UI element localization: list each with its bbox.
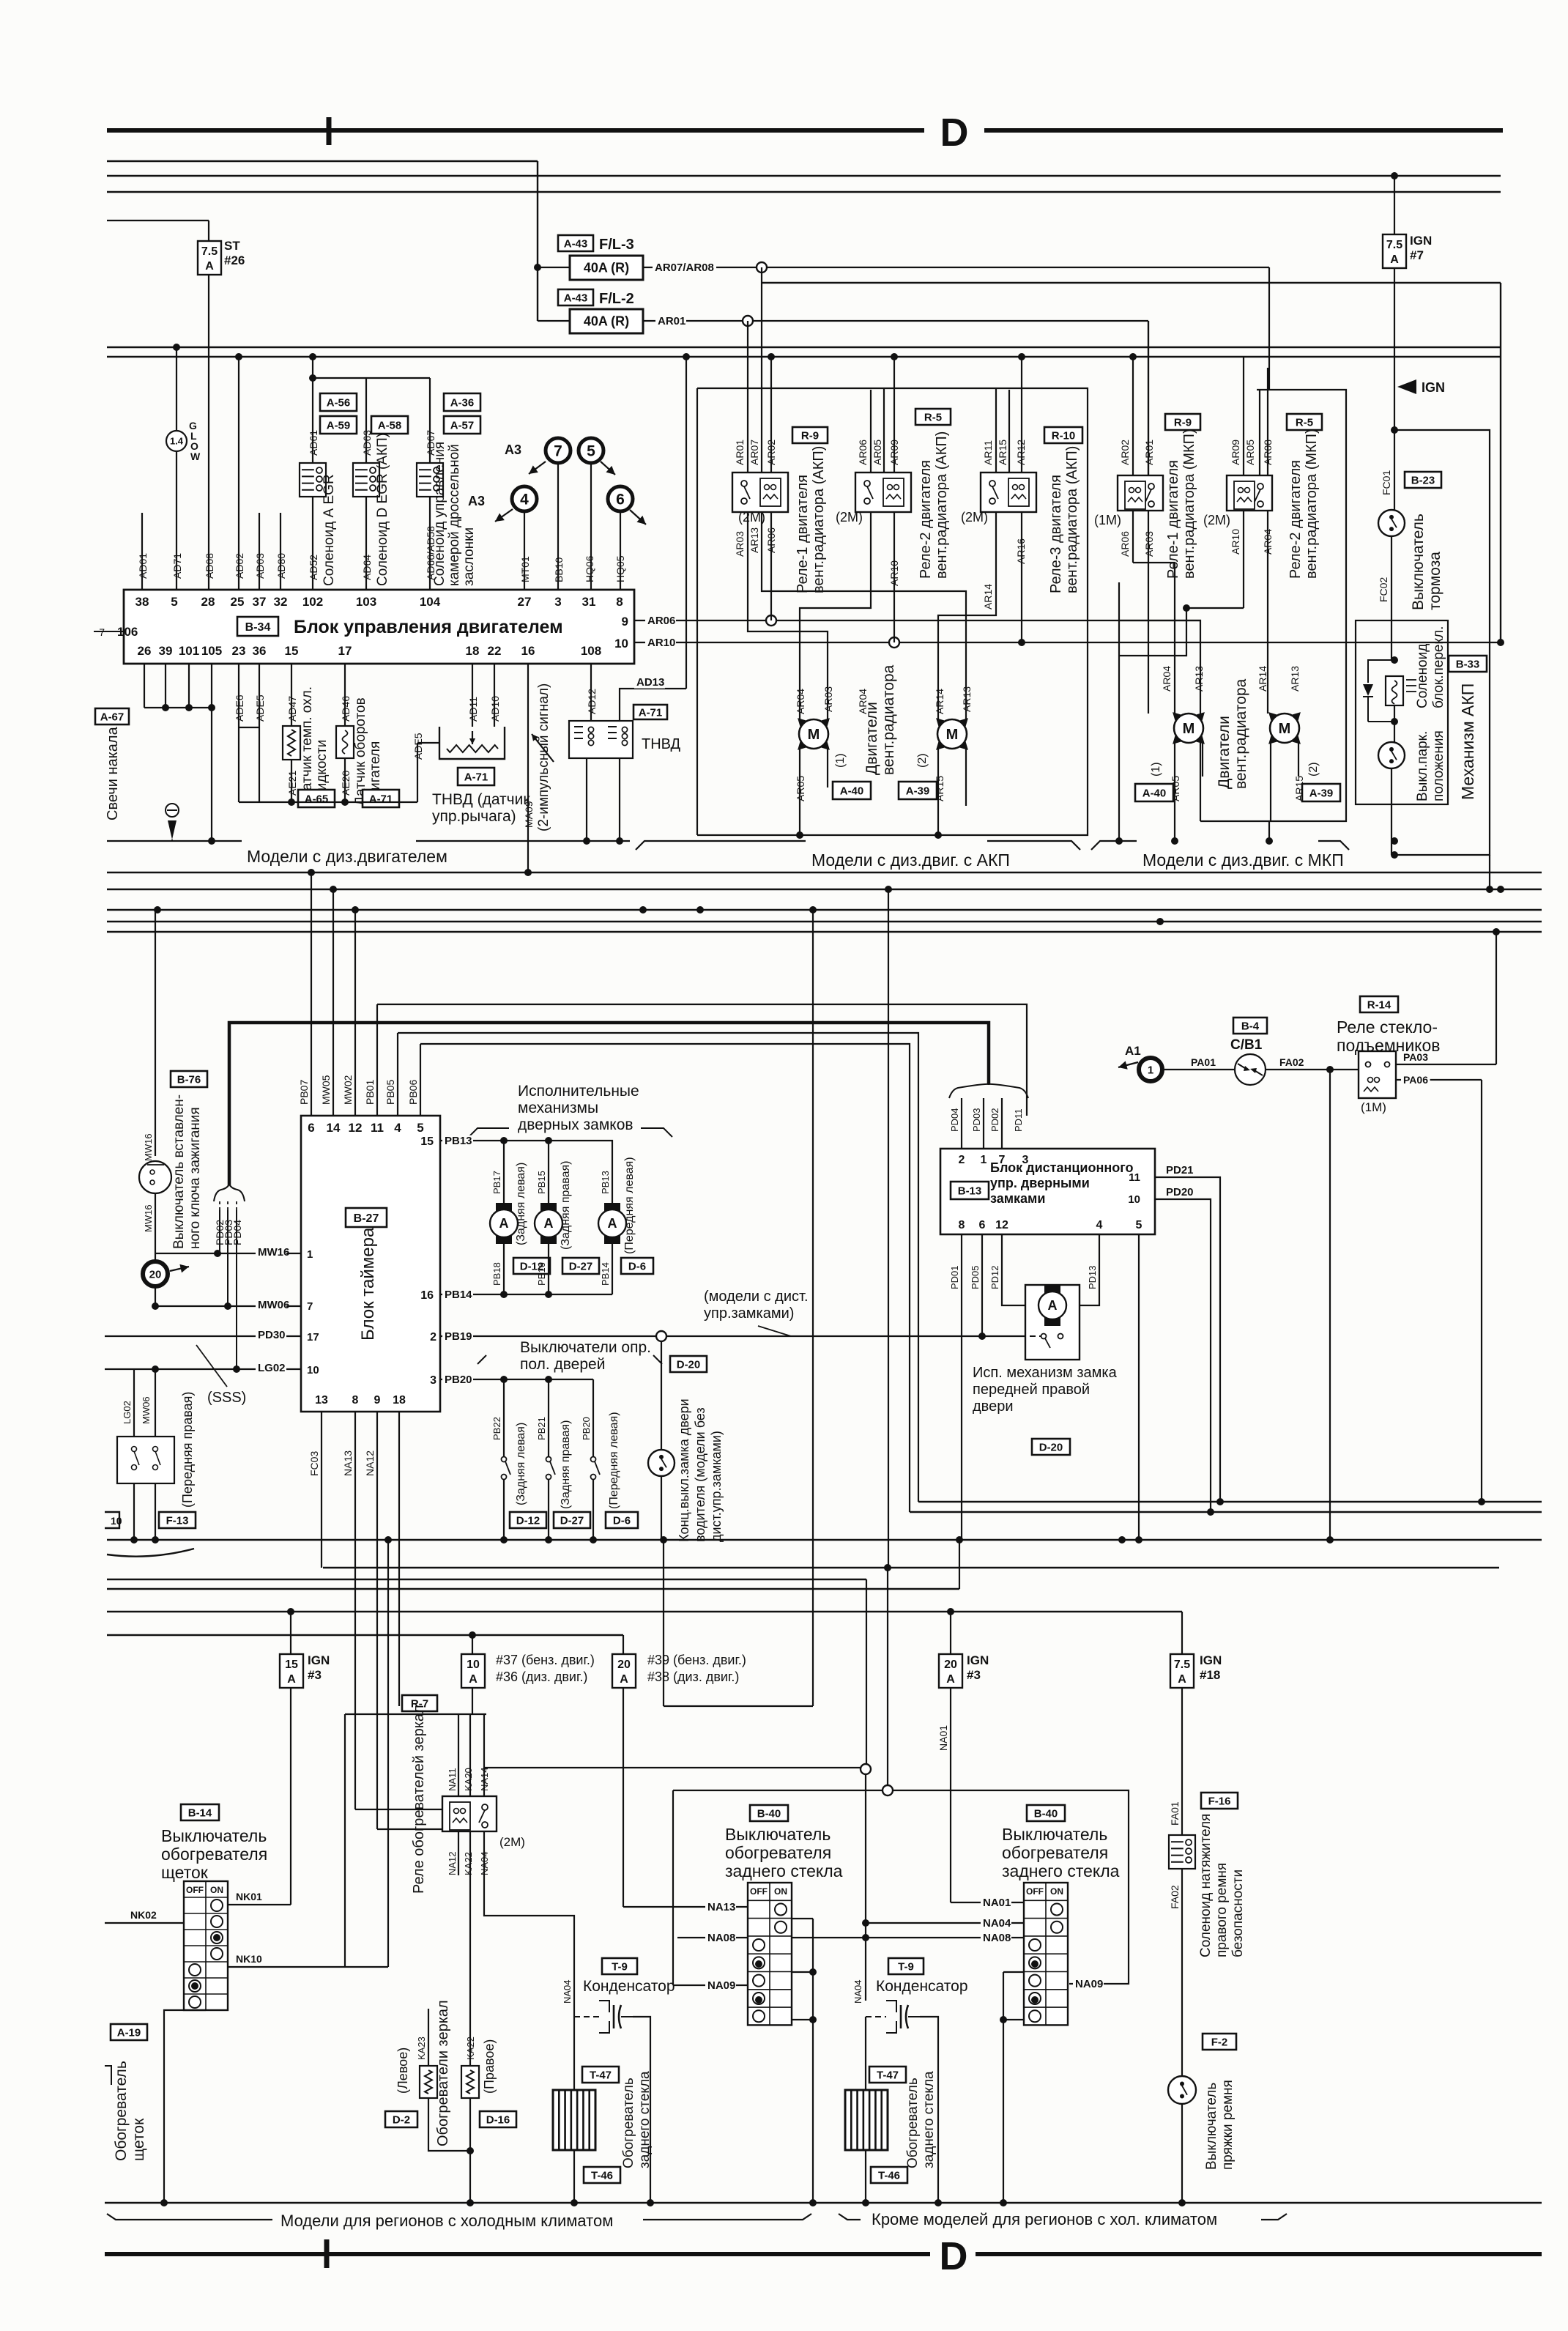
svg-text:Обогреватель: Обогреватель [113,2061,130,2161]
svg-text:MW16: MW16 [258,1246,289,1259]
svg-text:IGN: IGN [1200,1653,1222,1667]
wire FA02 [1266,1069,1359,1070]
svg-text:#26: #26 [224,253,245,267]
svg-text:PB13: PB13 [445,1135,472,1147]
wire MA09 2-pulse [527,664,529,872]
connector A-57 [444,416,480,434]
svg-text:PD21: PD21 [1166,1164,1194,1176]
svg-text:7.5: 7.5 [1174,1659,1190,1671]
svg-text:(2M): (2M) [961,510,988,525]
svg-text:AR11: AR11 [982,440,994,465]
svg-text:PB07: PB07 [298,1080,310,1105]
svg-text:AD64: AD64 [361,555,373,580]
connector T-47 middle [869,2067,906,2083]
svg-text:D-27: D-27 [569,1260,593,1272]
svg-text:108: 108 [581,644,601,658]
svg-text:Исп. механизм замка: Исп. механизм замка [973,1365,1118,1381]
junction AR01 [743,316,753,326]
solenoid drops to section line [586,758,587,841]
svg-text:OFF: OFF [750,1886,768,1897]
driver door lock switch [661,1341,662,1450]
svg-text:#39 (бенз. двиг.): #39 (бенз. двиг.) [647,1653,746,1667]
svg-text:A-71: A-71 [369,793,393,805]
svg-text:40A (R): 40A (R) [584,261,629,275]
svg-text:10: 10 [111,1515,122,1527]
svg-text:обогревателя: обогревателя [1002,1843,1108,1862]
svg-text:AD03: AD03 [254,553,266,579]
svg-text:ADE6: ADE6 [234,694,245,722]
svg-text:AD71: AD71 [171,553,183,579]
wire to fuse ST [107,220,209,221]
connector A-43 (F/L-2) [558,289,593,305]
wire MW16 to timer pin 1 [155,1253,301,1254]
svg-text:1: 1 [307,1248,313,1261]
svg-text:10: 10 [614,637,628,651]
svg-text:AD02: AD02 [234,553,245,579]
svg-text:D: D [940,111,969,155]
svg-text:A1: A1 [1125,1044,1141,1058]
svg-text:3: 3 [1022,1154,1029,1166]
svg-text:AR09: AR09 [1230,440,1241,465]
wire PD01 [961,1234,962,1540]
svg-text:A-39: A-39 [906,785,930,797]
svg-text:31: 31 [582,595,596,609]
AKP mechanism box [1356,620,1448,804]
connector R-9 MKP [1165,414,1200,430]
svg-text:FC02: FC02 [1378,577,1389,602]
svg-text:12: 12 [995,1219,1008,1231]
svg-text:D-20: D-20 [677,1358,701,1371]
svg-text:PB14: PB14 [445,1289,472,1301]
svg-text:PD05: PD05 [970,1265,981,1289]
wire NK10 [228,1966,388,1968]
wire PD05 [981,1234,983,1336]
svg-text:M: M [1183,721,1195,737]
svg-text:16: 16 [420,1289,434,1302]
svg-text:NA04: NA04 [983,1917,1011,1930]
bracket cold climate [107,2214,272,2220]
svg-text:(1M): (1M) [1361,1100,1386,1114]
svg-text:PB18: PB18 [491,1262,502,1286]
svg-text:Выключатель: Выключатель [1410,514,1427,610]
open circle NA04 [484,1767,861,1768]
relay-3 out wires [938,512,996,719]
svg-text:A: A [499,1216,509,1231]
svg-text:Конденсатор: Конденсатор [876,1978,968,1995]
svg-text:NA12: NA12 [364,1450,376,1476]
svg-text:замками: замками [990,1191,1045,1206]
connector T-9 left [602,1958,637,1974]
svg-text:PA03: PA03 [1403,1051,1428,1063]
solenoid A EGR [300,463,326,497]
wire AD61 chain [312,357,313,463]
door switch rear left [503,1379,505,1457]
connector B-23 [1405,472,1441,488]
svg-text:NA04: NA04 [479,1851,490,1875]
svg-text:OFF: OFF [186,1885,204,1895]
svg-text:Реле-1 двигателя: Реле-1 двигателя [795,475,811,593]
door switch front left [592,1379,594,1457]
left mirror heater [428,1875,429,2066]
bus line 6 [107,356,1501,357]
svg-text:KA23: KA23 [416,2037,427,2060]
svg-text:Реле-1 двигателя: Реле-1 двигателя [1165,460,1181,579]
relay-2 MKP out [1243,511,1244,608]
svg-text:4: 4 [520,491,529,508]
wire to models-bracket [211,708,212,841]
NK10 riser [387,1540,389,1967]
wire MW16 below switch [155,1193,156,1261]
svg-text:A-40: A-40 [840,785,864,797]
svg-text:R-10: R-10 [1052,429,1076,442]
svg-text:Обогреватель: Обогреватель [905,2078,921,2168]
wire FA02 below solenoid [1181,1869,1183,2076]
open circle NA09 line [673,1790,883,1791]
svg-text:14: 14 [327,1121,341,1135]
svg-text:9: 9 [622,615,628,629]
nodes on middle buses [308,869,315,876]
svg-text:AR06: AR06 [857,440,869,465]
AKP section bottom drops [796,831,803,839]
svg-text:PA06: PA06 [1403,1074,1428,1086]
svg-text:8: 8 [959,1219,965,1231]
wire to F/L fuses [537,161,538,321]
MKP bottom dots [1115,837,1123,845]
svg-text:MW06: MW06 [141,1396,152,1424]
svg-text:PB13: PB13 [600,1171,611,1194]
svg-text:R-14: R-14 [1367,998,1391,1011]
svg-text:NA01: NA01 [983,1897,1011,1909]
svg-text:Модели с диз.двиг. с МКП: Модели с диз.двиг. с МКП [1142,850,1344,870]
park position switch [1378,742,1405,768]
TNVD pump solenoids [590,664,592,721]
wire NA04 vertical [865,1774,866,2001]
fuse 7.5A IGN #18 [1181,1612,1183,1654]
svg-text:MA09: MA09 [523,801,535,828]
wires ADE6 ADE5 [238,664,239,727]
svg-text:Выключатель: Выключатель [1204,2083,1219,2170]
svg-text:T-47: T-47 [877,2069,899,2081]
connector T-9 middle [888,1958,924,1974]
svg-text:AD52: AD52 [308,555,319,580]
svg-text:AE20: AE20 [340,771,352,796]
svg-text:R-9: R-9 [1174,416,1192,429]
svg-text:AR01: AR01 [658,315,685,327]
svg-text:R-5: R-5 [1296,416,1313,429]
solenoid throttle chamber [417,463,443,497]
svg-text:Блок таймера: Блок таймера [358,1227,378,1341]
svg-text:AD61: AD61 [308,430,319,456]
svg-text:AR05: AR05 [795,776,806,801]
svg-text:PB15: PB15 [536,1171,547,1194]
svg-text:T-9: T-9 [612,1960,628,1973]
svg-text:PB17: PB17 [491,1171,502,1194]
svg-text:11: 11 [371,1121,384,1135]
svg-text:(модели с дист.: (модели с дист. [704,1289,809,1305]
svg-text:D: D [940,2234,968,2278]
wire ADE5 to TNVD [417,743,418,802]
connector A-36 [444,393,480,411]
svg-text:B-40: B-40 [757,1807,781,1820]
svg-text:PD13: PD13 [1087,1265,1098,1289]
svg-text:AR07/AR08: AR07/AR08 [655,262,714,274]
svg-text:#3: #3 [308,1668,322,1682]
svg-text:Выключатели опр.: Выключатели опр. [520,1339,651,1356]
svg-text:FC01: FC01 [1381,470,1392,495]
svg-text:W: W [190,451,201,462]
svg-text:R-5: R-5 [924,411,942,423]
svg-text:17: 17 [338,644,352,658]
svg-text:AR03: AR03 [822,686,834,712]
lower bus line 6 segment [107,1579,866,1580]
connector A-58 [371,416,408,434]
wire PB14 from timer pin 16 [440,1294,593,1295]
connector T-47 left [582,2067,619,2083]
svg-text:PB06: PB06 [407,1080,419,1105]
relay-2 fan motor (AKP) [855,472,911,512]
svg-text:дверных замков: дверных замков [518,1116,633,1133]
wire to park switch [1394,705,1395,742]
relay-2 fan motor (MKP) [1227,475,1272,511]
svg-text:F-2: F-2 [1211,2036,1228,2048]
svg-text:(1): (1) [834,753,847,768]
svg-text:NA01: NA01 [937,1725,949,1751]
wire FC02 [1391,536,1392,660]
svg-text:обогревателя: обогревателя [161,1845,267,1864]
svg-text:щеток: щеток [130,2118,147,2161]
svg-text:A-39: A-39 [1309,787,1334,799]
lower bus line 2 [910,1511,1542,1513]
svg-text:Реле-3 двигателя: Реле-3 двигателя [1048,475,1064,593]
wiper switch bottom wire [164,2010,206,2203]
svg-text:#36 (диз. двиг.): #36 (диз. двиг.) [496,1669,587,1684]
svg-text:AR01: AR01 [734,440,746,465]
circuit breaker C/B1 [1233,1018,1267,1034]
svg-text:9: 9 [374,1394,381,1407]
relay-3 AKP wires [995,388,997,472]
fuse 7.5A IGN #7 [1394,176,1395,235]
svg-text:A: A [1178,1673,1186,1686]
svg-text:AR16: AR16 [1015,538,1027,564]
svg-text:3: 3 [554,595,561,609]
wire AD80 stub [280,513,281,590]
middle bus line 1 [107,872,1542,873]
svg-text:Двигатели: Двигатели [1216,716,1233,789]
svg-text:6: 6 [979,1219,986,1231]
svg-text:B-40: B-40 [1034,1807,1058,1820]
actuator rear right [548,1141,549,1203]
connector B-33 [1449,656,1487,672]
svg-text:AR06: AR06 [765,527,777,553]
connector D-20 driver [670,1356,707,1372]
svg-text:15: 15 [420,1135,434,1148]
node FA02 on bus [1326,1536,1334,1543]
svg-text:FA02: FA02 [1279,1056,1304,1068]
svg-text:Блок дистанционного: Блок дистанционного [990,1160,1133,1175]
svg-text:AD46: AD46 [340,696,352,722]
svg-text:A-71: A-71 [464,771,488,783]
wire KA22 label segment [428,2008,429,2009]
svg-text:AR05: AR05 [1244,440,1256,465]
svg-text:AR10: AR10 [888,560,900,586]
svg-text:OFF: OFF [1026,1886,1044,1897]
svg-text:водителя (модели без: водителя (модели без [693,1407,707,1542]
svg-text:10: 10 [467,1659,480,1671]
svg-text:ADE5: ADE5 [254,694,266,722]
svg-text:ST: ST [224,239,240,253]
wire AR01 right drop [1148,321,1149,475]
svg-text:20: 20 [944,1659,957,1671]
svg-text:T-46: T-46 [878,2169,900,2182]
svg-text:A-40: A-40 [1142,787,1167,799]
wire AD64 to pin 103 [365,497,367,590]
svg-text:A: A [608,1216,617,1231]
svg-text:104: 104 [420,595,441,609]
connector A-67 [95,708,129,724]
wire AD02 to ECU pin 25 [238,357,239,590]
svg-text:NA08: NA08 [707,1932,735,1944]
svg-text:27: 27 [518,595,532,609]
svg-text:5: 5 [171,595,177,609]
svg-text:Выключатель: Выключатель [1002,1825,1107,1844]
svg-text:25: 25 [231,595,245,609]
bracket AKP models [636,841,806,850]
fuse 7.5A ST #26 [198,241,221,275]
heater grid middle [865,2017,866,2090]
svg-text:2: 2 [959,1154,965,1166]
svg-text:1.4: 1.4 [170,436,184,447]
svg-text:R-9: R-9 [801,429,819,442]
svg-text:пол. дверей: пол. дверей [520,1356,605,1373]
svg-text:упр. дверными: упр. дверными [990,1176,1090,1190]
svg-text:A-19: A-19 [117,2026,141,2039]
svg-text:NA14: NA14 [479,1767,490,1791]
svg-text:(1): (1) [1150,762,1162,777]
connector D-12 switch [510,1512,546,1528]
svg-text:Датчик темп. охл.: Датчик темп. охл. [300,686,315,800]
wire NK01 [228,1904,291,1905]
svg-text:заднего стекла: заднего стекла [725,1861,843,1880]
lower bus line 1 [918,1501,1542,1502]
brake switch [1378,510,1405,536]
svg-text:NK01: NK01 [236,1891,262,1902]
svg-text:4: 4 [394,1121,401,1135]
relay-2 AKP wires [870,390,872,472]
AKP section frame [697,388,1088,835]
svg-text:A: A [620,1673,628,1686]
wire PB20 from timer pin 3 [440,1379,593,1380]
svg-text:PB19: PB19 [445,1330,472,1343]
relay-1 fan motor (AKP) [732,472,788,512]
svg-text:двери: двери [973,1398,1014,1415]
nodes on bus 6 right [683,353,690,360]
svg-text:NA09: NA09 [1075,1978,1103,1990]
svg-text:AR07: AR07 [748,440,760,465]
svg-text:18: 18 [466,644,480,658]
wire PA06 [1396,1079,1482,1081]
svg-text:AR10: AR10 [1230,529,1241,555]
svg-text:13: 13 [315,1394,328,1407]
svg-text:D-20: D-20 [1039,1441,1063,1453]
bus stub line 7 [762,282,1501,283]
bundle brace right [949,1084,1028,1098]
svg-text:Исполнительные: Исполнительные [518,1083,639,1100]
svg-text:AR13: AR13 [961,686,973,712]
svg-text:10: 10 [1128,1193,1140,1206]
wire PB19 from timer pin 2 [440,1335,1044,1337]
svg-text:AD12: AD12 [586,689,598,714]
timer block Блок таймера [301,1116,440,1412]
timer supply wires [311,872,312,1116]
svg-text:(Задняя левая): (Задняя левая) [515,1423,527,1505]
relay-2 MKP wires [1243,357,1244,475]
svg-text:A-71: A-71 [639,706,663,719]
svg-text:AD66/AD58: AD66/AD58 [425,526,436,580]
svg-text:вент.радиатора (МКП): вент.радиатора (МКП) [1304,429,1320,579]
svg-text:B-34: B-34 [245,621,271,634]
svg-text:PD04: PD04 [949,1108,960,1132]
svg-text:7.5: 7.5 [1386,239,1402,251]
node on bus 3 [1391,172,1398,179]
connector B-76 [171,1071,207,1087]
svg-text:ON: ON [210,1885,223,1895]
rear heater switch 1 grid [748,1883,792,2025]
svg-text:A: A [544,1216,554,1231]
wire AD01 stub [141,513,143,590]
svg-text:Реле-2 двигателя: Реле-2 двигателя [1288,460,1304,579]
node AD71 [173,344,180,351]
svg-text:A-43: A-43 [564,292,588,304]
svg-text:#37 (бенз. двиг.): #37 (бенз. двиг.) [496,1653,595,1667]
connector D-12 [513,1258,550,1274]
wire PB19 dash to actuator [982,1335,1041,1337]
connector R-10 [1044,427,1082,443]
fuse 10A #37/#36 [472,1635,473,1654]
NA04 line to switch 2 [866,1922,1024,1924]
section line diesel models [107,840,242,842]
svg-text:AD08: AD08 [204,553,215,579]
svg-text:(2): (2) [1307,762,1320,777]
svg-text:20: 20 [617,1659,631,1671]
capacitor left [599,2001,609,2033]
lower bus line 3 [107,1539,1542,1541]
connector A-39 [899,782,937,799]
svg-text:#7: #7 [1410,248,1424,262]
svg-text:AR01: AR01 [1143,440,1155,465]
svg-text:M: M [946,727,959,743]
svg-text:Реле стекло-: Реле стекло- [1337,1018,1438,1037]
svg-text:Соленоид А EGR: Соленоид А EGR [322,474,337,586]
fusible link F/L-2 40A [538,320,570,322]
wire NA01 into switch2 [951,1902,1024,1903]
svg-text:A: A [1390,253,1399,266]
connector R-5 [915,409,951,425]
connector F-2 [1203,2034,1236,2050]
svg-text:AD80: AD80 [275,553,287,579]
capacitor middle [886,2001,896,2033]
wire PB13 from timer pin 15 [440,1140,593,1141]
svg-text:NA11: NA11 [447,1768,458,1791]
mirror left resistor [428,2009,429,2066]
bracket MKP models [1091,841,1137,850]
bus line 2 [107,160,538,162]
rear heater switch 2 grid [1024,1883,1068,2025]
svg-text:ТНВД: ТНВД [642,736,681,752]
svg-text:AD63: AD63 [361,430,373,456]
wire timer pin 18 [398,1412,400,1706]
svg-text:AR13: AR13 [1289,666,1301,692]
svg-text:28: 28 [201,595,215,609]
